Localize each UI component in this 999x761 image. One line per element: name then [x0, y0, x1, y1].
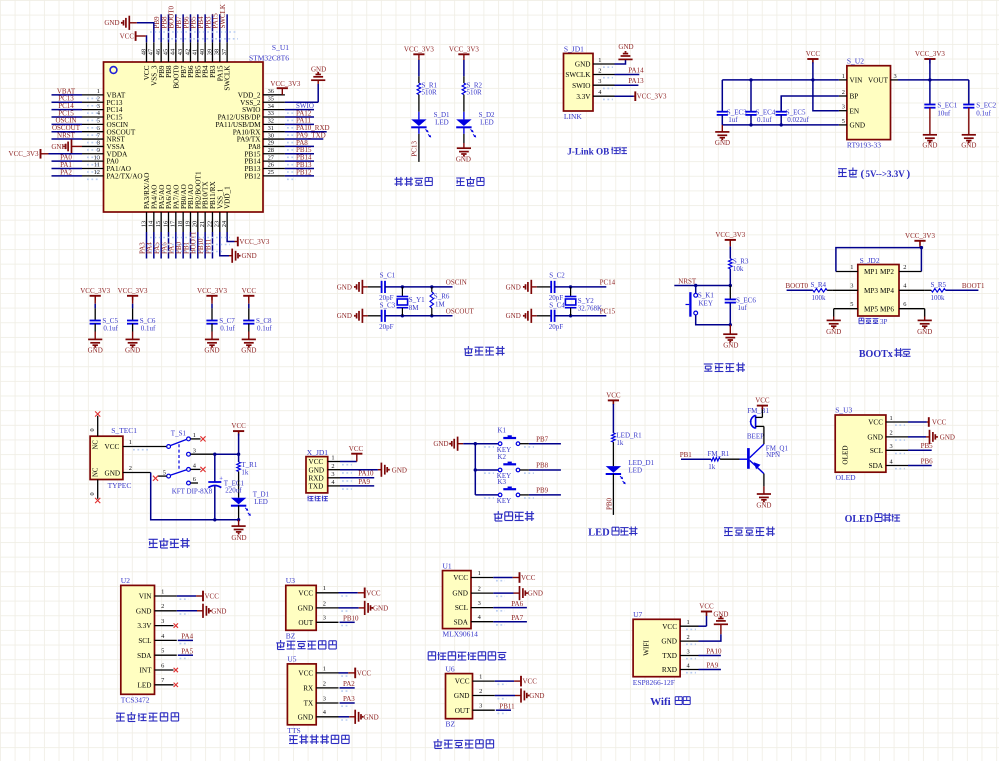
title reset circuit — [704, 363, 745, 373]
svg-text:GND: GND — [528, 590, 543, 598]
ground below S_C6 — [125, 339, 140, 354]
svg-text:VCC: VCC — [231, 422, 246, 430]
svg-text:(: ( — [861, 168, 865, 180]
svg-text:GND: GND — [506, 283, 521, 291]
power VCC_3V3 above S_R2 — [449, 45, 479, 60]
power VCC_3V3 at JD1 pin4 — [615, 91, 668, 101]
svg-text:RXD: RXD — [309, 474, 324, 482]
svg-text:MLX90614: MLX90614 — [443, 630, 479, 639]
pushbutton K1 KEY — [475, 427, 561, 454]
svg-text:INT: INT — [140, 667, 153, 675]
JD1 pin 4 3.3V — [576, 89, 614, 101]
MCU top pin 46 PB9 — [153, 14, 166, 78]
svg-text:S_JD2: S_JD2 — [860, 256, 880, 265]
svg-text:2: 2 — [598, 68, 601, 75]
svg-text:14: 14 — [148, 220, 155, 227]
svg-text:KEY: KEY — [699, 299, 713, 307]
svg-text:VCC_3V3: VCC_3V3 — [915, 50, 945, 58]
svg-text:GND: GND — [575, 61, 591, 69]
IC U1 MCU STM32C8T6 body — [104, 43, 290, 212]
svg-text:2: 2 — [903, 264, 906, 271]
title buzzer circuit — [724, 527, 775, 537]
svg-text:VCC: VCC — [205, 593, 220, 601]
svg-text:16: 16 — [162, 221, 169, 227]
svg-text:20: 20 — [192, 221, 199, 227]
U7 pin 4 RXD — [662, 662, 699, 674]
svg-text:VCC: VCC — [699, 603, 714, 611]
svg-text:PA13: PA13 — [628, 77, 644, 85]
svg-text:GND: GND — [661, 638, 677, 646]
compile marks bottom pins — [150, 238, 230, 252]
svg-text:3.3V: 3.3V — [137, 622, 152, 630]
svg-text:0.1uf: 0.1uf — [976, 109, 991, 117]
svg-text:3: 3 — [479, 703, 482, 710]
pushbutton K3 KEY — [475, 478, 561, 505]
U2 pin 2 BP — [839, 89, 858, 101]
module U7 ESP8266-12F — [633, 610, 680, 687]
svg-text:VCC: VCC — [120, 32, 135, 40]
svg-text:17: 17 — [170, 220, 177, 227]
svg-text:LED: LED — [435, 119, 449, 127]
svg-text:3: 3 — [598, 78, 601, 85]
wire U7 PA9 — [699, 661, 721, 669]
svg-text:0.1uf: 0.1uf — [757, 116, 772, 124]
svg-text:WIFI: WIFI — [643, 640, 651, 656]
svg-text:LED: LED — [138, 681, 152, 689]
ground at S_C1 — [337, 280, 368, 294]
title programmable LED — [395, 177, 433, 186]
crystal labels S_Y1 8M — [409, 296, 425, 312]
JD1 pin 1 GND — [575, 57, 615, 69]
svg-text:KEY: KEY — [497, 497, 511, 505]
svg-text:VCC: VCC — [357, 670, 372, 678]
svg-text:PA9: PA9 — [358, 478, 370, 486]
svg-text:PA2/TX/AO: PA2/TX/AO — [107, 172, 143, 180]
svg-text:VCC_3V3: VCC_3V3 — [449, 45, 479, 53]
MCU left pin 12 PA2/TX/AO — [52, 168, 143, 180]
MCU top pin 42 PB6 — [182, 14, 195, 78]
MCU bottom pin 24 VDD_1 — [221, 186, 232, 232]
LED S_D1 — [411, 111, 450, 138]
MCU bottom pin 14 PA4/AO — [146, 185, 159, 259]
power VCC_3V3 above S_C6 — [118, 287, 148, 304]
power VCC at U7 pin1 — [699, 603, 715, 627]
svg-text:GND: GND — [242, 252, 257, 260]
svg-text:BEEP: BEEP — [747, 432, 764, 440]
U2 pin 1 VIN — [139, 588, 220, 601]
resistor S_R2 510R — [462, 82, 482, 97]
svg-text:2: 2 — [323, 680, 326, 687]
svg-text:RT9193-33: RT9193-33 — [847, 141, 881, 150]
svg-text:28: 28 — [268, 147, 274, 154]
svg-text:0.1uf: 0.1uf — [103, 325, 118, 333]
svg-text:35: 35 — [268, 95, 274, 102]
svg-text:PA6: PA6 — [511, 600, 523, 608]
svg-text:OLED: OLED — [836, 473, 857, 482]
svg-text:TXD: TXD — [309, 483, 324, 491]
svg-text:3: 3 — [850, 283, 853, 290]
resistor LED_R1 1k — [612, 432, 643, 448]
svg-text:VCC: VCC — [521, 574, 536, 582]
power VCC LED circuit — [606, 391, 621, 405]
svg-text:LED: LED — [588, 528, 610, 539]
svg-text:GND: GND — [961, 142, 976, 150]
U2 pin 2 GND — [136, 603, 227, 618]
MCU right pin 28 PB15 — [245, 146, 314, 158]
svg-text:30: 30 — [268, 132, 274, 139]
power VCC_3V3 at MCU VDDA — [9, 149, 82, 159]
LED S_D2 — [456, 111, 495, 138]
svg-text:S_C1: S_C1 — [380, 272, 396, 280]
svg-text:GND: GND — [826, 328, 841, 336]
resistor S_R4 100k — [811, 281, 858, 302]
MCU left pin 8 VSSA — [82, 140, 126, 151]
svg-text:GND: GND — [104, 19, 119, 27]
MCU bottom pin 17 PA7/AO — [168, 185, 181, 259]
svg-text:GND: GND — [713, 611, 728, 619]
svg-text:VCC_3V3: VCC_3V3 — [80, 287, 110, 295]
svg-text:U2: U2 — [121, 576, 130, 585]
MCU left pin 4 PC15 — [52, 109, 123, 121]
svg-text:BZ: BZ — [286, 631, 296, 640]
svg-text:44: 44 — [170, 48, 177, 55]
ground below EC3 — [715, 125, 730, 147]
svg-text:VCC_3V3: VCC_3V3 — [404, 45, 434, 53]
svg-text:PB7: PB7 — [536, 435, 549, 443]
svg-text:1: 1 — [193, 432, 196, 439]
svg-text:LINK: LINK — [564, 112, 582, 121]
MCU right pin 30 PA9/TX — [237, 131, 326, 143]
MCU left pin 6 OSCOUT — [52, 124, 136, 136]
MCU bottom pin 23 VSS_1 — [214, 188, 225, 232]
svg-text:PA2: PA2 — [343, 680, 355, 688]
capacitor S_EC4 0.1uf — [745, 80, 775, 125]
svg-text:1uf: 1uf — [728, 116, 738, 124]
MCU right pin 29 PA8 — [248, 139, 314, 151]
svg-text:45: 45 — [162, 49, 169, 55]
ground at U7 pin2 — [699, 611, 729, 642]
switch S_K1 KEY — [686, 286, 715, 317]
svg-text:S_R4: S_R4 — [811, 281, 827, 289]
svg-text:510R: 510R — [422, 89, 438, 97]
svg-text:PA14: PA14 — [628, 66, 644, 74]
power VCC at X_JD1 pin1 — [340, 445, 364, 462]
connector X_JD1 — [306, 448, 328, 493]
wire BOOT0 — [786, 282, 813, 290]
svg-text:VCC: VCC — [242, 287, 257, 295]
ground at MCU VSS_2 — [285, 66, 326, 103]
svg-text:MP2: MP2 — [880, 268, 894, 276]
svg-text:6: 6 — [161, 662, 164, 669]
svg-text:3: 3 — [323, 615, 326, 622]
svg-text:U6: U6 — [446, 664, 455, 673]
svg-text:PA9: PA9 — [707, 661, 719, 669]
capacitor S_EC2 0.1uf — [963, 80, 996, 135]
svg-text:PB10: PB10 — [343, 615, 359, 623]
power VCC buzzer — [747, 397, 770, 418]
title BOOTx — [859, 348, 911, 360]
JD2 pin numbers — [850, 264, 907, 308]
svg-text:29: 29 — [268, 140, 274, 147]
svg-text:0: 0 — [89, 492, 96, 495]
MCU left pin 7 NRST — [52, 131, 126, 143]
connector TEC1 TYPEC — [90, 426, 137, 490]
svg-text:2: 2 — [323, 600, 326, 607]
svg-text:VCC_3V3: VCC_3V3 — [118, 287, 148, 295]
svg-text:RX: RX — [303, 685, 314, 693]
svg-text:OUT: OUT — [298, 619, 313, 627]
svg-text:39: 39 — [206, 49, 213, 55]
svg-text:TX: TX — [304, 700, 314, 708]
connector JD1 J-Link — [564, 45, 594, 122]
buzzer FM_B1 BEEP — [747, 415, 764, 440]
wire to S_R3 — [729, 246, 731, 258]
svg-text:VCC: VCC — [606, 391, 621, 399]
ground at MCU top pin 47 — [104, 16, 154, 43]
svg-text:100k: 100k — [812, 294, 827, 302]
U2 pin 5 SDA — [137, 647, 193, 659]
capacitor S_EC1 10uf — [924, 80, 957, 135]
JD1 pin 3 SWIO — [572, 78, 614, 90]
svg-text:41: 41 — [192, 49, 199, 55]
svg-text:S_EC2: S_EC2 — [976, 101, 996, 109]
wire S_R1 to S_D1 — [418, 95, 420, 112]
U5 pin 2 RX — [303, 680, 355, 692]
svg-text:5: 5 — [850, 301, 853, 308]
svg-text:SCL: SCL — [455, 604, 468, 612]
wire X_JD1 PA10 — [340, 470, 374, 478]
svg-text:2: 2 — [331, 463, 334, 470]
svg-text:SDA: SDA — [137, 652, 152, 660]
svg-text:VCC: VCC — [868, 419, 883, 427]
ground buzzer emitter — [756, 474, 771, 510]
svg-text:2: 2 — [129, 465, 132, 472]
svg-text:S_TEC1: S_TEC1 — [111, 426, 137, 435]
svg-text:S_EC1: S_EC1 — [937, 101, 957, 109]
svg-text:43: 43 — [177, 49, 184, 55]
svg-text:VIN: VIN — [139, 593, 153, 601]
wire VCC_3V3 to S_R1 — [418, 60, 420, 76]
wire U7 PA10 — [699, 647, 723, 655]
svg-text:NRST: NRST — [57, 131, 76, 139]
MCU right pin 25 PB12 — [245, 168, 314, 180]
svg-text:GND: GND — [309, 466, 325, 474]
svg-text:21: 21 — [199, 221, 206, 227]
U1 pin 4 SDA — [454, 614, 527, 626]
svg-text:100k: 100k — [931, 294, 946, 302]
power VCC TypeC — [231, 422, 246, 454]
svg-text:SWCLK: SWCLK — [224, 65, 232, 91]
svg-text:BZ: BZ — [446, 720, 456, 729]
MCU left pin 11 PA1/AO — [52, 161, 132, 173]
svg-text:SWIO: SWIO — [572, 82, 590, 90]
switch T_S1 — [153, 429, 206, 485]
title wifi module — [650, 696, 690, 708]
svg-text:26: 26 — [268, 162, 274, 169]
svg-text:EN: EN — [850, 107, 860, 115]
svg-text:VCC_3V3: VCC_3V3 — [905, 232, 935, 240]
junction dots crystal — [569, 285, 572, 317]
svg-text:3P: 3P — [880, 318, 888, 326]
svg-text:PA2: PA2 — [60, 168, 72, 176]
svg-text:46: 46 — [155, 49, 162, 55]
wire VCC node to T_R1 — [238, 454, 240, 462]
compile marks left pins — [87, 98, 98, 179]
svg-text:GND: GND — [311, 66, 326, 74]
svg-text:GND: GND — [392, 466, 407, 474]
svg-text:MP4: MP4 — [880, 287, 894, 295]
title crystal circuit — [464, 346, 505, 356]
power VCC at OLED pin1 — [908, 417, 947, 427]
MCU bottom pin 21 PB10/TX — [197, 181, 210, 259]
junction dots GND bus — [749, 123, 783, 126]
crystal S_Y2 — [565, 287, 577, 316]
svg-text:1: 1 — [850, 264, 853, 271]
crystal labels S_Y2 32.768K — [578, 297, 602, 313]
svg-text:TYPEC: TYPEC — [108, 481, 132, 490]
resistor S_R5 100k — [899, 281, 947, 302]
MCU top pin 37 SWCLK — [219, 4, 232, 91]
svg-text:0.1uf: 0.1uf — [141, 325, 156, 333]
svg-text:GND: GND — [298, 713, 314, 721]
svg-text:RXD: RXD — [662, 666, 677, 674]
svg-text:VCC: VCC — [932, 419, 947, 427]
svg-text:LED: LED — [254, 498, 268, 506]
svg-text:NC: NC — [93, 440, 100, 450]
title IR avoid module 1 — [276, 640, 336, 650]
svg-text:22: 22 — [206, 221, 213, 227]
svg-text:PA10: PA10 — [706, 647, 722, 655]
svg-text:U5: U5 — [287, 655, 296, 664]
svg-text:PC14: PC14 — [600, 279, 616, 287]
U6 pin 2 GND — [454, 688, 545, 703]
wire U2 GND bus — [722, 124, 839, 126]
U5 pin 3 TX — [304, 695, 356, 707]
svg-text:PB9: PB9 — [536, 487, 549, 495]
svg-text:20pF: 20pF — [549, 323, 564, 331]
TEC1 pin1 wire to switch — [123, 439, 167, 450]
svg-text:3: 3 — [687, 648, 690, 655]
U2 pin 5 GND — [839, 118, 865, 130]
svg-text:33: 33 — [268, 110, 274, 117]
svg-text:10uf: 10uf — [937, 109, 951, 117]
svg-text:2: 2 — [479, 688, 482, 695]
U2 pin 1 VIN — [839, 73, 863, 85]
JD1 pin 2 SWCLK — [565, 68, 614, 80]
capacitor T_EC1 220uf — [208, 454, 244, 520]
MCU right pin 32 PA11/USB/DM — [215, 117, 314, 129]
svg-text:3: 3 — [890, 443, 893, 450]
MCU top pin 41 PB5 — [190, 14, 203, 78]
U6 pin 1 VCC — [455, 674, 538, 687]
MCU top pin 38 PA15 — [212, 13, 225, 82]
wire JD1 pin3 PA13 — [615, 77, 645, 85]
X_JD1 download label — [307, 496, 328, 502]
svg-text:VCC: VCC — [349, 445, 364, 453]
svg-text:BP: BP — [850, 93, 859, 101]
U5 pin 4 GND — [298, 709, 379, 724]
svg-text:47: 47 — [148, 48, 155, 55]
svg-text:NPN: NPN — [766, 451, 780, 459]
capacitor S_C3 20pF — [368, 301, 396, 331]
svg-text:TTS: TTS — [287, 726, 300, 735]
title color detect module — [116, 712, 179, 722]
svg-text:GND: GND — [715, 139, 730, 147]
LED LED_D1 — [606, 459, 655, 484]
svg-text:S_C2: S_C2 — [549, 272, 565, 280]
wire VCC to VIN and EN — [813, 62, 839, 110]
svg-text:VDD_1: VDD_1 — [224, 186, 232, 209]
svg-text:TCS3472: TCS3472 — [121, 695, 150, 704]
svg-text:48: 48 — [140, 49, 147, 55]
svg-text:6: 6 — [193, 476, 196, 483]
MCU top pin 45 PB8 — [160, 14, 173, 78]
ground below S_C7 — [204, 339, 219, 354]
svg-text:STM32C8T6: STM32C8T6 — [249, 54, 289, 63]
svg-text:GND: GND — [125, 347, 140, 355]
svg-text:MP3: MP3 — [864, 287, 878, 295]
svg-text:K1: K1 — [498, 427, 507, 435]
U7 pin 2 GND — [661, 634, 698, 646]
svg-text:VCC: VCC — [806, 50, 821, 58]
svg-text:GND: GND — [88, 347, 103, 355]
crystal S_Y1 — [397, 287, 409, 316]
U3 pin 1 VCC — [868, 415, 908, 427]
svg-text:S_C3: S_C3 — [380, 301, 396, 309]
MCU bottom pin 16 PA6/AO — [160, 185, 173, 259]
junction dots VIN rail — [749, 78, 814, 81]
svg-text:GND: GND — [618, 43, 633, 51]
svg-text:VCC_3V3: VCC_3V3 — [9, 150, 39, 158]
ground at JD2 pin5 — [826, 309, 858, 336]
svg-text:23: 23 — [214, 221, 221, 227]
MCU top pin 48 VCC — [140, 42, 151, 80]
capacitor S_C6 0.1uf — [127, 304, 156, 340]
title voice output module — [289, 735, 349, 745]
svg-text:VIN: VIN — [850, 77, 864, 85]
svg-text:5: 5 — [163, 469, 166, 476]
U3 pin 2 GND — [867, 430, 908, 442]
svg-text:1: 1 — [842, 73, 845, 80]
svg-text:220uf: 220uf — [225, 486, 242, 494]
svg-text:MP1: MP1 — [864, 268, 878, 276]
wire X_JD1 PA9 — [340, 478, 374, 486]
svg-text:SCL: SCL — [870, 447, 883, 455]
svg-text:GND: GND — [364, 713, 379, 721]
capacitor S_C2 20pF — [537, 272, 565, 303]
ground at JD1 pin1 — [615, 43, 634, 64]
power VCC at MCU top pin 48 — [120, 31, 147, 42]
X_JD1 pin 4 TXD — [309, 479, 353, 490]
MCU bottom pin 20 PB2/BOOT1 — [190, 171, 203, 258]
MCU left pin 9 VDDA — [82, 147, 128, 158]
svg-text:32.768K: 32.768K — [578, 305, 602, 313]
svg-text:S_R5: S_R5 — [931, 281, 947, 289]
svg-text:BOOTx: BOOTx — [859, 349, 893, 360]
svg-text:0: 0 — [89, 428, 96, 431]
svg-text:SCL: SCL — [138, 637, 151, 645]
U1 pin 2 GND — [452, 586, 543, 601]
svg-text:+: + — [219, 476, 223, 483]
U2 pin 7 LED — [138, 677, 178, 689]
svg-text:1: 1 — [687, 619, 690, 626]
U2 pin 3 EN — [839, 104, 860, 116]
wire buzzer to collector — [763, 426, 765, 444]
title OLED display — [845, 513, 901, 525]
svg-text:OUT: OUT — [455, 707, 470, 715]
svg-text:GND: GND — [433, 440, 448, 448]
svg-text:27: 27 — [268, 154, 275, 161]
